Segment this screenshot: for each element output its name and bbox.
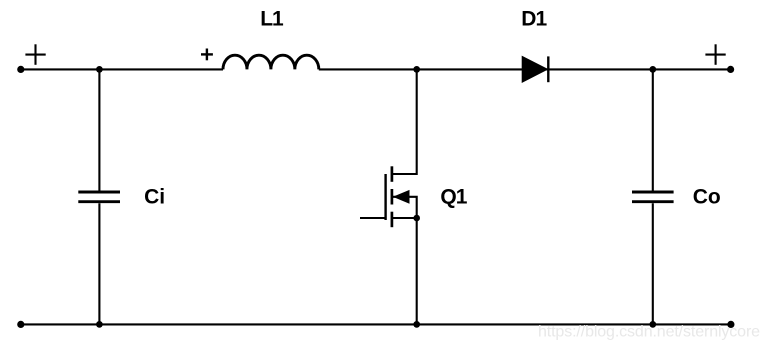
wire left vertical lower (98, 203, 100, 324)
svg-text:https://blog.csdn.net/sternlyc: https://blog.csdn.net/sternlycore (538, 323, 760, 340)
svg-text:Co: Co (693, 185, 721, 208)
capacitor Co (632, 192, 674, 202)
node input + terminal (17, 66, 24, 73)
node ground right terminal (727, 321, 734, 328)
svg-text:D1: D1 (521, 8, 547, 31)
node ground B junction (413, 321, 420, 328)
node ground A junction (96, 321, 103, 328)
capacitor Ci (78, 192, 120, 202)
inductor L1 (223, 55, 319, 69)
svg-text:Ci: Ci (144, 186, 165, 209)
bottom rail wire (21, 323, 731, 325)
node ground C junction (649, 321, 656, 328)
node Q1 source junction (413, 215, 420, 222)
wire top rail left segment (21, 68, 223, 70)
wire right vertical lower (652, 203, 654, 324)
wire Q1 drain vertical (392, 69, 417, 174)
wire Q1 gate lead (360, 217, 386, 219)
node ground left terminal (17, 321, 24, 328)
node C (output junction) (649, 66, 656, 73)
plus sign top-left (25, 44, 45, 65)
svg-text:Q1: Q1 (440, 186, 467, 209)
wire left vertical upper (98, 69, 100, 190)
wire right vertical upper (652, 69, 654, 190)
node output + terminal (727, 66, 734, 73)
plus sign top-right (705, 44, 725, 65)
transistor Q1 (386, 166, 417, 227)
wire Q1 source vertical (416, 218, 418, 324)
node A (input junction) (96, 66, 103, 73)
svg-text:L1: L1 (260, 8, 284, 31)
wire top rail right segment (319, 68, 731, 70)
diode D1 (522, 56, 548, 82)
node B (switch node) (413, 66, 420, 73)
plus sign small (inductor input polarity) (201, 49, 213, 61)
